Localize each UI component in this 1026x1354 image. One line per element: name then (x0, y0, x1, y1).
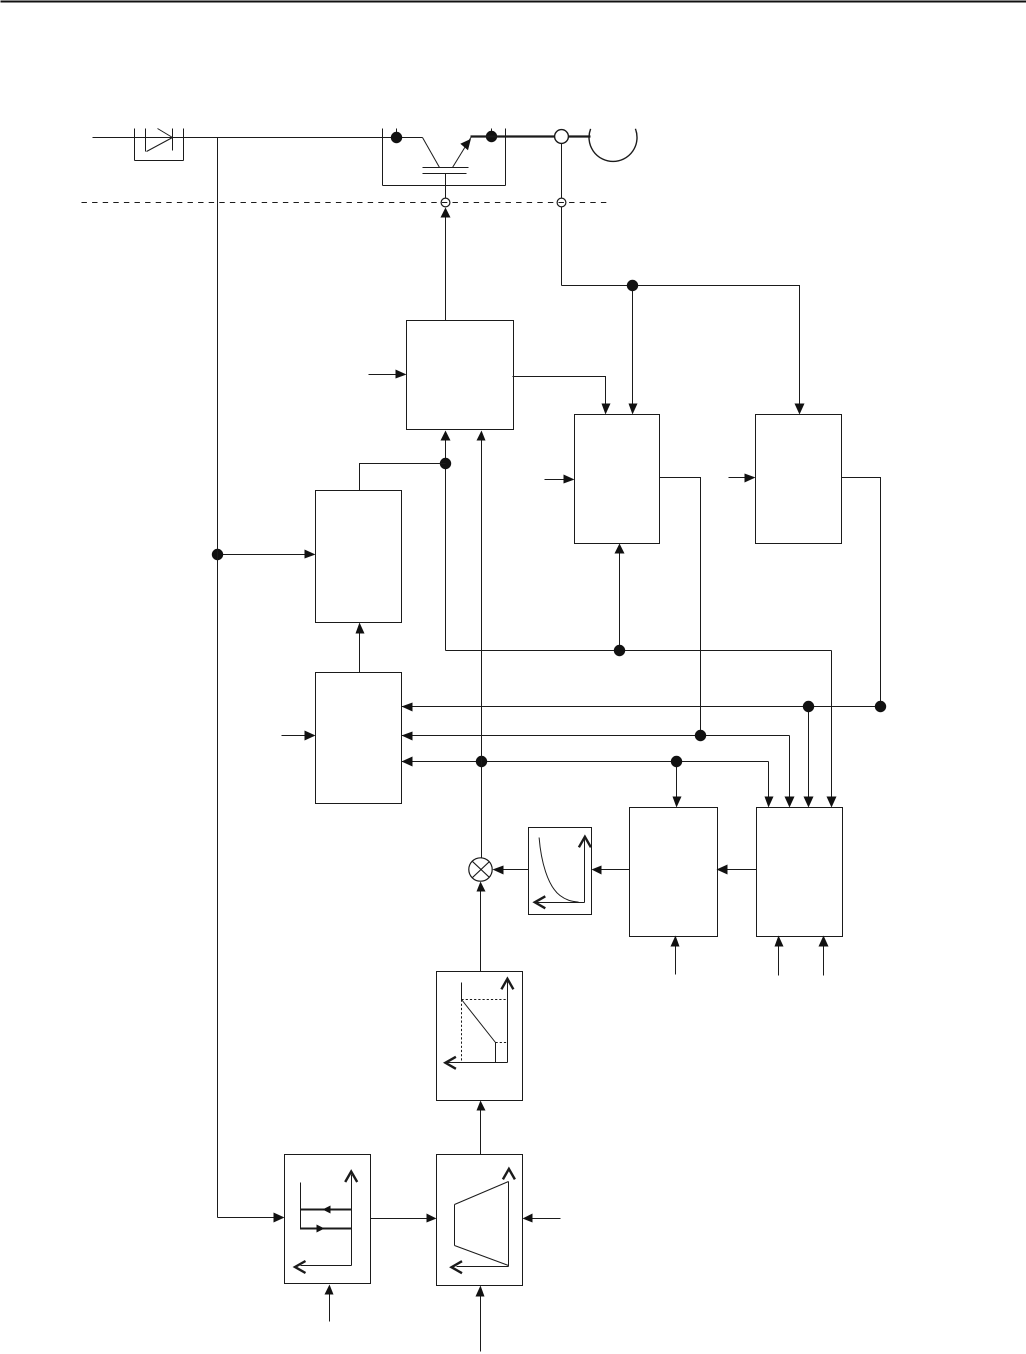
wire: mains input to power stage (93, 137, 423, 139)
wire: input to modulator left (545, 475, 575, 484)
dashed separator line (82, 202, 609, 204)
wire: V/f block to curve block (592, 866, 630, 875)
wire: ramp generator up to ramp limiter (477, 1101, 486, 1155)
wire: gate driver output to PWM block (513, 377, 611, 415)
block U6 characteristic (1/x curve) (529, 828, 592, 915)
wire: PWM block bottom inputs (775, 936, 829, 976)
block U11 setpoint memory (285, 1155, 371, 1284)
thick wire: motor lead (471, 135, 591, 137)
block U7 V/f control (630, 808, 718, 937)
junction dot row3 multiplier line (476, 756, 487, 767)
terminal circle on voltage feedback line (557, 198, 566, 207)
transistor Q1 (IGBT symbol) (397, 129, 492, 199)
terminal circle U (555, 130, 569, 144)
block U1 gate driver (407, 321, 514, 430)
block U3 voltage monitor (756, 415, 842, 544)
junction dot row3 branch (671, 756, 682, 767)
page top edge bar (1, 1, 1026, 3)
node row1 wire (402, 703, 881, 808)
block U8 PWM logic (757, 808, 843, 937)
wire: setpoint memory to ramp generator (371, 1214, 437, 1223)
junction dot gate-driver feedback (440, 458, 451, 469)
wire: input to monitor left (729, 474, 756, 483)
wire: ramp generator right input (523, 1214, 561, 1223)
junction dot: collector node (391, 132, 402, 143)
block U5 limiter (316, 673, 402, 804)
wire: V/f block bottom input (671, 936, 680, 975)
wire: input to controller left (218, 550, 316, 559)
node row3 wire (402, 757, 774, 808)
junction dot setpoint line (212, 549, 223, 560)
junction dot row2 (695, 730, 706, 741)
motor M1 (arc symbol) (589, 129, 637, 162)
wire: setpoint memory bottom input (325, 1285, 334, 1322)
node row2 wire (402, 732, 795, 808)
wire: controller top link (360, 464, 446, 491)
junction dot row1 branch (803, 701, 814, 712)
wire: monitor output to row1 (842, 478, 881, 707)
wire: input to limiter left (282, 731, 316, 741)
terminal circle on gate line (441, 198, 450, 207)
wire: input to gate driver (369, 370, 407, 379)
junction dot: emitter node (486, 131, 497, 142)
block U10 ramp generator (trapezoid) (437, 1155, 523, 1286)
wire: modulator output down to limit row (660, 478, 701, 736)
wire: gate drive up to transistor (441, 208, 451, 321)
inverter frame (open-top box around transistor) (383, 129, 506, 186)
junction dot y650 (614, 645, 625, 656)
net: setpoint line x217 (218, 138, 285, 1223)
junction dot on feedback net (627, 280, 638, 291)
net: multiplier output up to gate driver (477, 431, 486, 858)
rectifier D1 (diode in open-top frame) (135, 129, 184, 161)
multiplier X1 (circle-cross) (469, 858, 492, 881)
block U9 ramp limiter (characteristic) (437, 972, 523, 1101)
block U2 modulator (575, 415, 660, 544)
net: DC-bus voltage feedback (562, 286, 805, 415)
wire: PWM block to V/f block (717, 865, 757, 875)
wire: limiter to controller (356, 623, 365, 673)
wire: ramp generator bottom input (476, 1286, 485, 1352)
wire: ramp block up to multiplier (477, 882, 486, 972)
net: current limit row y650 (441, 431, 837, 808)
junction dot row1 right (875, 701, 886, 712)
block U4 controller (316, 491, 402, 623)
wire: terminal U down to feedback corner (561, 144, 563, 286)
wire: curve block to multiplier (493, 866, 529, 875)
